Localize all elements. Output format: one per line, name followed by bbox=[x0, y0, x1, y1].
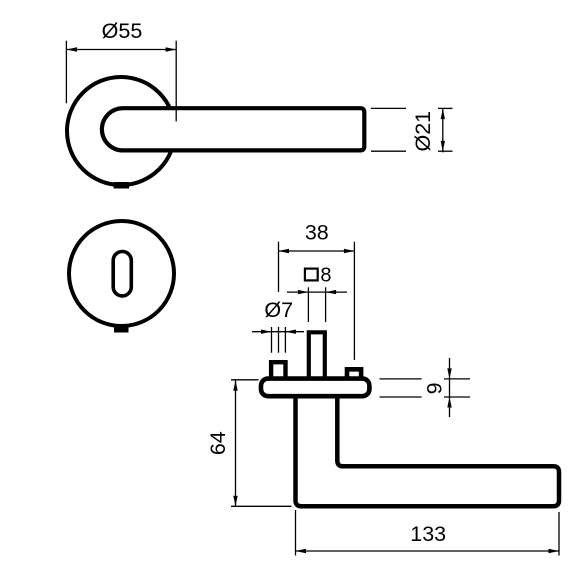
svg-text:38: 38 bbox=[305, 221, 329, 245]
svg-text:133: 133 bbox=[410, 522, 446, 546]
svg-text:Ø7: Ø7 bbox=[264, 298, 293, 322]
svg-text:Ø21: Ø21 bbox=[411, 111, 435, 152]
svg-text:8: 8 bbox=[320, 264, 331, 286]
svg-text:64: 64 bbox=[206, 431, 230, 455]
svg-text:9: 9 bbox=[422, 382, 446, 394]
svg-text:Ø55: Ø55 bbox=[102, 19, 143, 43]
